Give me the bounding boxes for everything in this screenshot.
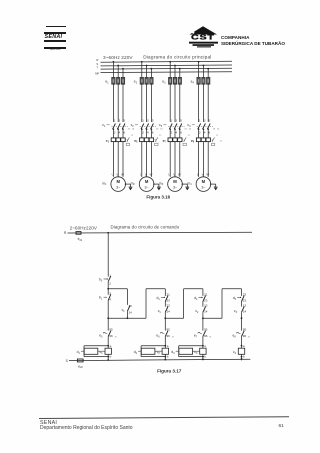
node seal-in bottom [127,317,129,319]
svg-text:W: W [206,172,209,176]
svg-text:12: 12 [159,135,162,137]
svg-text:MP: MP [95,72,99,76]
node branch 1 tap R [113,61,115,63]
aux contact c1 (NO) [164,302,166,307]
svg-text:M: M [173,179,177,184]
svg-text:5: 5 [152,119,154,123]
wire e8 to coil node a [241,336,243,348]
svg-text:1: 1 [171,119,173,123]
wire coil c3 to S rail [202,354,204,360]
svg-text:2~60Hz220V: 2~60Hz220V [70,226,97,231]
svg-text:3~: 3~ [173,185,177,189]
svg-text:14: 14 [160,129,163,131]
svg-text:6: 6 [152,130,154,134]
SENAI logo bottom bar [44,47,66,49]
svg-text:a: a [167,344,169,348]
wire branch 3 fuse to contactor [169,83,171,122]
svg-text:b: b [243,355,245,359]
aux contact c3 (NO) [241,302,243,307]
svg-text:6: 6 [180,130,182,134]
node branch 4 tap R [198,61,200,63]
contactor coil c1 [105,348,111,354]
svg-text:96: 96 [204,334,208,338]
svg-text:e4: e4 [191,80,195,85]
svg-text:d2: d2 [134,350,138,355]
timer contact d3 (NO delayed) [242,296,245,302]
svg-text:Diagrama do circuito de comand: Diagrama do circuito de comando [111,224,180,229]
SENAI logo third bar [44,40,66,42]
svg-text:M: M [145,179,149,184]
svg-text:23: 23 [243,298,247,302]
wire parallel loop timer d2 [141,345,165,347]
timer coil d1 [84,348,98,354]
svg-text:14: 14 [204,310,208,314]
svg-text:U: U [197,172,199,176]
svg-text:e3: e3 [162,80,166,85]
overload relay e7 trip contact [182,139,184,141]
ground motor m1 [126,183,131,185]
junction row wire 2 [165,317,183,319]
node branch c4 on S rail [241,358,243,360]
CST text COMPANHIA [221,35,249,40]
svg-text:c3: c3 [194,350,198,355]
svg-text:2: 2 [109,281,111,285]
svg-text:13: 13 [243,304,247,308]
footer SENAI [40,420,57,426]
svg-text:e21: e21 [78,237,83,242]
svg-text:c2: c2 [131,123,135,128]
motor m3 [168,177,183,192]
svg-text:c3: c3 [159,123,163,128]
wire branch 2 contactor to overload [141,129,143,138]
wire branch 2 phase taps [141,62,143,78]
wire branch c3 drop [202,289,204,296]
wire branch 2 overload to motor [141,142,143,177]
bus line T [101,67,233,70]
svg-text:1: 1 [142,119,144,123]
svg-text:e7: e7 [194,334,198,339]
ground motor m2 [154,183,159,185]
contactor c2 main contacts [141,124,144,130]
wire coil c4 to S rail [241,354,243,360]
svg-text:13: 13 [156,129,159,131]
svg-text:U: U [140,172,142,176]
wire branch 1 contactor to overload [112,129,114,138]
svg-text:14: 14 [243,310,247,314]
svg-text:4: 4 [147,130,149,134]
wire b0 to node [107,282,109,289]
node supply to rail [107,232,109,234]
svg-text:b: b [204,355,206,359]
svg-text:1: 1 [199,119,201,123]
node branch 3 tap T [179,68,181,70]
wire branch c2 to junction row [164,312,166,318]
SENAI logo top bar [46,26,66,27]
wire step top branch c4 [222,288,242,290]
svg-text:V: V [116,172,118,176]
svg-text:m2: m2 [131,181,136,186]
svg-text:14: 14 [217,129,220,131]
svg-text:M: M [116,179,120,184]
overload relay e8 trip contact [210,139,212,141]
wire b1 to junction row [107,300,109,318]
svg-text:Figura 3.17: Figura 3.17 [157,368,182,373]
aux contact c2 (NO) [202,302,204,307]
svg-text:5: 5 [209,119,211,123]
wire e6 to coil node a [164,336,166,348]
node branch 2 tap T [151,68,153,70]
svg-text:M: M [248,336,250,338]
node branch c1 on S rail [107,359,109,361]
wire step top branch c2 [146,288,165,290]
bus line R [101,60,233,63]
svg-text:2: 2 [114,130,116,134]
node branch c2 junction [164,317,166,319]
svg-text:e5: e5 [106,139,110,144]
svg-text:23: 23 [167,298,171,302]
overload relay e5 heater elements [111,138,115,142]
ground motor m3 [182,183,187,185]
SENAI logo Espirito Santo tagline [44,49,66,51]
svg-text:e6: e6 [156,334,160,339]
pushbutton b0 (NC stop) [108,276,111,282]
SENAI logo second bar [44,32,66,34]
wire branch 1 fuse to contactor [112,83,114,122]
wire step top branch c3 [184,288,203,290]
node branch 2 tap S [146,65,148,67]
svg-text:e8: e8 [233,334,237,339]
timer coil d2 [141,348,155,354]
wire branch 1 phase taps [112,62,114,78]
svg-text:c4: c4 [233,350,237,355]
wire branch c3 to junction row [202,312,204,318]
timer contact d1 (NO delayed) [165,296,168,302]
svg-text:M: M [210,336,212,338]
svg-text:6: 6 [123,130,125,134]
contactor coil c2 [162,348,168,354]
wire branch c2 drop [164,289,166,296]
motor m1 [111,177,126,192]
footer Departamento Regional do Espirito Santo [40,425,133,431]
svg-text:2: 2 [142,130,144,134]
svg-text:M: M [202,179,206,184]
wire e5 to coil node a [107,336,109,348]
svg-text:1: 1 [114,119,116,123]
bus line MP [101,71,233,74]
timer contact d2 (NO delayed) [203,296,206,302]
wire seal-in branch [126,289,128,305]
node branch 1 tap S [117,65,119,67]
svg-text:4: 4 [175,130,177,134]
motor m2 [139,177,154,192]
overload contact e6 (NC) [164,318,166,330]
svg-text:3~: 3~ [116,185,120,189]
svg-text:3: 3 [175,119,177,123]
svg-text:23: 23 [204,298,208,302]
fuse e3 [169,77,172,84]
svg-text:13: 13 [184,129,187,131]
svg-text:S: S [66,359,68,363]
fuse e2 [140,77,143,84]
svg-text:c1: c1 [100,350,104,355]
svg-text:3~: 3~ [201,185,205,189]
wire step up branch c2 [145,289,147,318]
node junction left rail [107,317,109,319]
svg-text:e22: e22 [78,364,83,369]
fuse e1 [112,77,115,84]
node seal-in top [107,288,109,290]
svg-text:5: 5 [180,119,182,123]
fuse e4 [197,77,200,84]
overload relay e7 heater elements [168,138,172,142]
footer rule [39,416,289,419]
contactor coil c4 [238,348,244,354]
svg-text:96: 96 [109,334,113,338]
wire branch 3 contactor to overload [169,129,171,138]
svg-text:c1: c1 [102,123,106,128]
ground motor m4 [211,183,216,185]
svg-text:3~: 3~ [145,185,149,189]
svg-text:12: 12 [131,135,134,137]
svg-text:4: 4 [204,130,206,134]
wire branch c4 to junction row [241,312,243,318]
motor m4 [196,177,211,192]
svg-text:V: V [173,172,175,176]
svg-text:R: R [64,231,67,235]
contactor coil c3 [200,348,206,354]
svg-text:W: W [150,172,153,176]
junction row wire 3 [203,317,222,319]
wire branch 4 contactor to overload [198,129,200,138]
svg-text:Diagrama do circuito principal: Diagrama do circuito principal [143,54,211,59]
overload relay e6 trip contact [154,139,156,141]
svg-text:96: 96 [167,334,171,338]
svg-text:c3: c3 [234,309,238,314]
contactor c1 main contacts [113,124,116,130]
svg-text:3: 3 [119,119,121,123]
svg-text:T: T [96,65,98,69]
svg-text:3: 3 [204,119,206,123]
svg-text:W: W [178,172,181,176]
svg-text:4: 4 [109,298,111,302]
wire parallel loop timer d1 [84,345,108,347]
svg-text:b0: b0 [99,278,103,283]
svg-text:c1: c1 [158,309,162,314]
wire coil c2 to S rail [164,354,166,360]
svg-text:12: 12 [188,135,191,137]
svg-text:a: a [243,344,245,348]
svg-text:m1: m1 [102,181,107,186]
svg-text:4: 4 [119,130,121,134]
svg-text:96: 96 [243,334,247,338]
svg-text:e1: e1 [105,80,109,85]
timer coil d3 [179,348,193,354]
wire branch 2 fuse to contactor [141,83,143,122]
contactor c4 main contacts [198,124,201,130]
overload relay e6 heater elements [140,138,144,142]
node branch c4 junction [241,317,243,319]
wire parallel loop timer d3 [179,345,203,347]
CST text SIDERURGICA DE TUBARAO [221,41,285,46]
junction row wire 1 [108,317,146,319]
node branch c2 on S rail [164,359,166,361]
overload contact e7 (NC) [202,318,204,330]
svg-text:c2: c2 [195,309,199,314]
wire branch c4 drop [241,289,243,296]
node branch 3 tap R [169,61,171,63]
wire branch 1 overload to motor [112,142,114,177]
svg-text:W: W [121,172,124,176]
svg-text:13: 13 [204,304,208,308]
SENAI logo wordmark [45,34,67,40]
bus line S [101,64,233,67]
CST logo mark [185,24,221,49]
supply line S [69,359,250,360]
overload contact e5 (NC) [107,318,109,330]
svg-text:3~60Hz 220V: 3~60Hz 220V [103,55,133,60]
wire left rail top [107,233,109,277]
svg-text:d2: d2 [194,296,198,301]
node branch c3 junction [202,317,204,319]
svg-text:M: M [115,336,117,338]
svg-text:b1: b1 [99,296,103,301]
svg-text:e5: e5 [99,334,103,339]
svg-text:b: b [110,355,112,359]
pushbutton b1 (NO start) [107,289,109,295]
node branch 4 tap S [203,65,205,67]
svg-text:d1: d1 [157,296,161,301]
svg-text:2: 2 [171,130,173,134]
svg-text:24: 24 [167,310,171,314]
svg-text:23: 23 [167,304,171,308]
svg-text:U: U [168,172,170,176]
wire branch 3 overload to motor [169,142,171,177]
svg-text:b: b [167,355,169,359]
svg-text:6: 6 [209,130,211,134]
svg-text:m3: m3 [159,181,164,186]
svg-text:2: 2 [199,130,201,134]
svg-text:e2: e2 [134,80,138,85]
node branch c3 on S rail [202,358,204,360]
svg-text:13: 13 [128,129,131,131]
svg-text:3: 3 [147,119,149,123]
overload contact e8 (NC) [241,318,243,330]
fuse e21 [76,232,81,235]
footer page number 61 [279,424,284,429]
fuse e22 [77,359,83,362]
wire branch 4 phase taps [198,62,200,78]
svg-text:14: 14 [128,310,132,314]
svg-text:c1: c1 [122,308,126,313]
node branch 1 tap T [122,68,124,70]
overload relay e8 heater elements [196,138,200,142]
svg-text:c4: c4 [187,123,191,128]
contactor c3 main contacts [169,124,172,130]
wire step up branch c3 [183,289,185,318]
svg-text:m4: m4 [187,181,192,186]
svg-text:V: V [145,172,147,176]
svg-text:d3: d3 [171,350,175,355]
wire seal-in bottom [126,311,128,318]
svg-text:14: 14 [220,141,223,143]
svg-text:a: a [110,344,112,348]
overload relay e5 trip contact [125,139,127,141]
svg-text:c2: c2 [157,350,161,355]
svg-text:d3: d3 [233,296,237,301]
node branch 3 tap S [174,65,176,67]
svg-text:12: 12 [216,135,219,137]
svg-text:a: a [204,344,206,348]
supply line R [68,231,253,234]
svg-text:U: U [112,172,114,176]
svg-text:5: 5 [123,119,125,123]
wire branch 3 phase taps [169,62,171,78]
wire e7 to coil node a [202,336,204,348]
svg-text:Figura 3.16: Figura 3.16 [146,195,170,200]
svg-text:13: 13 [213,129,216,131]
svg-text:M: M [172,336,174,338]
node branch 2 tap R [141,61,143,63]
node branch 4 tap T [207,68,209,70]
svg-text:d1: d1 [77,350,81,355]
wire branch 4 fuse to contactor [198,83,200,122]
wire branch 4 overload to motor [198,142,200,177]
wire coil c1 to S rail [107,354,109,360]
svg-text:14: 14 [132,129,135,131]
wire seal-in top [108,288,127,290]
svg-text:V: V [202,172,204,176]
wire step up branch c4 [221,289,223,318]
svg-text:14: 14 [189,129,192,131]
